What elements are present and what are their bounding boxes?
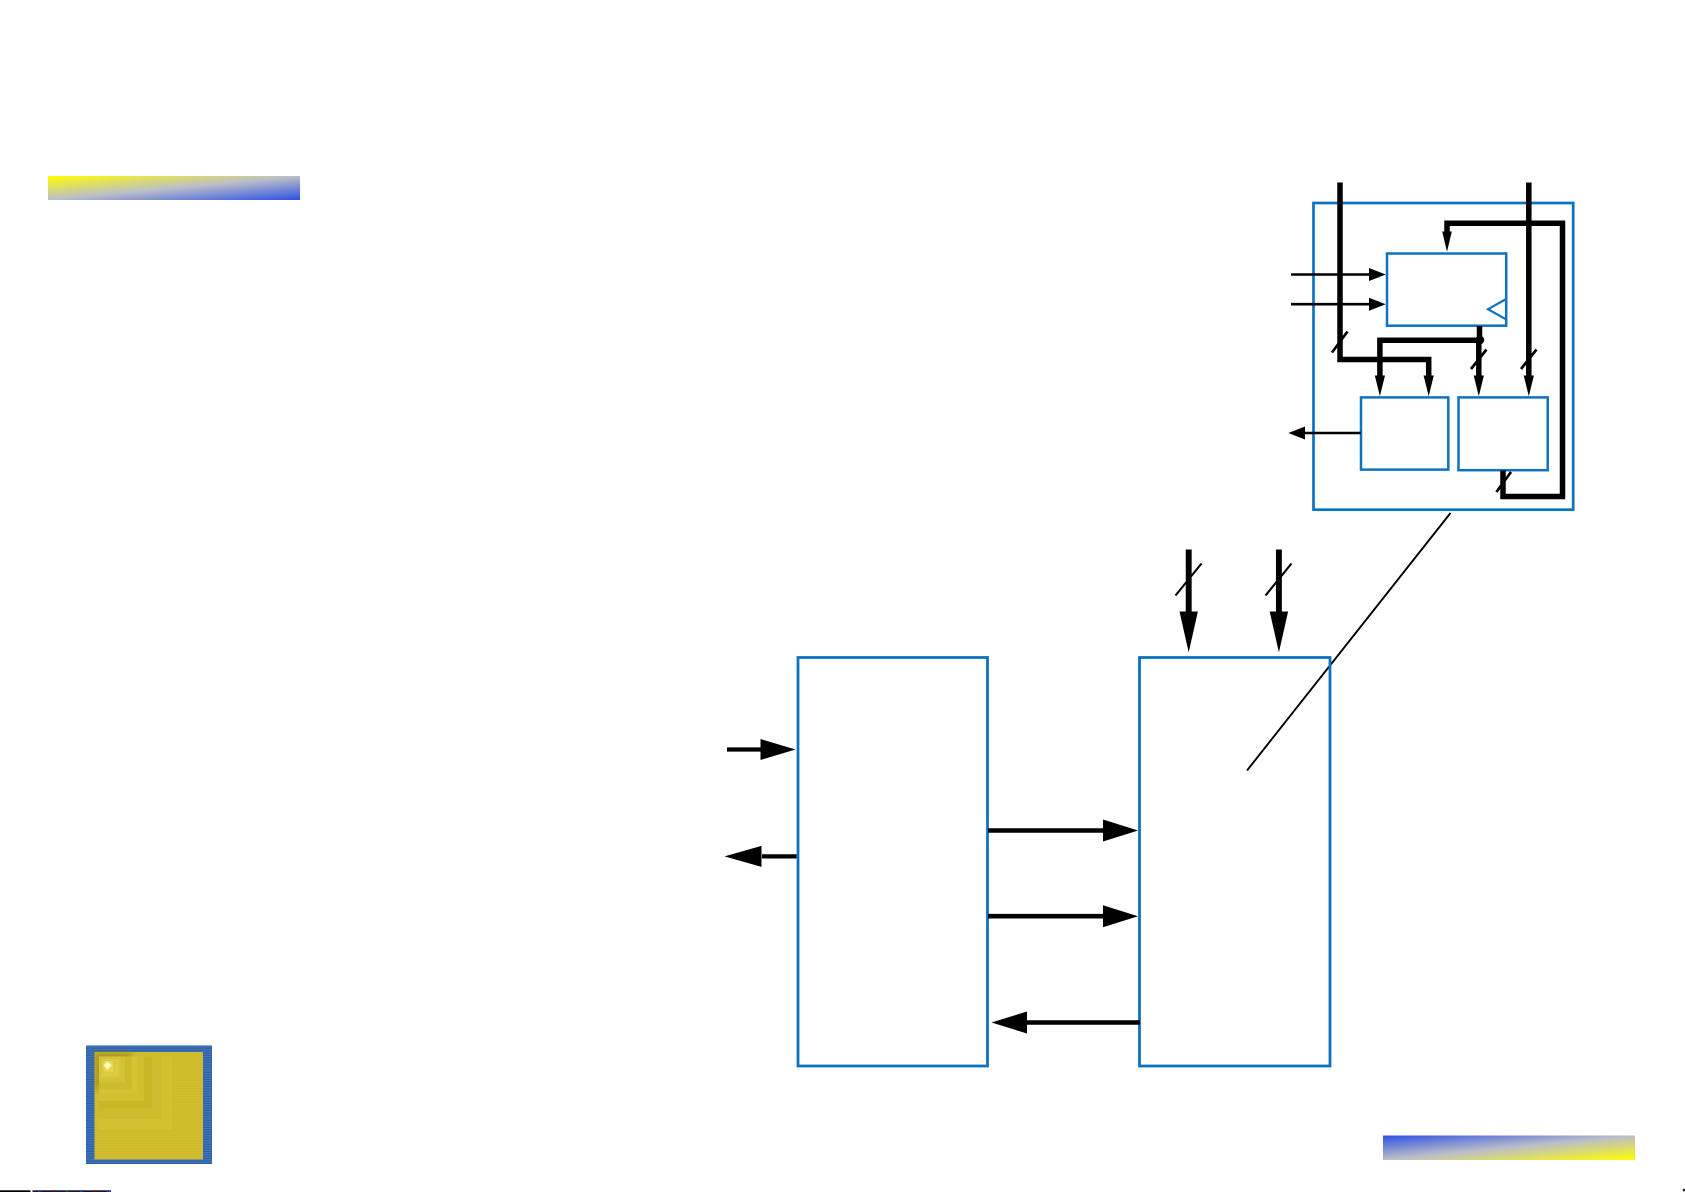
thin input arrow A1 into register — [1291, 268, 1386, 281]
clock wedge of REG1 — [1488, 299, 1506, 319]
footer gradient bar — [1383, 1136, 1635, 1161]
outer unit box U1 — [1314, 203, 1574, 510]
chip logo blue frame — [86, 1046, 212, 1165]
junction dot — [1475, 336, 1484, 345]
register REG1 — [1387, 254, 1506, 326]
bottom-left dark dashed strip — [33, 1190, 112, 1192]
read-data arrow memory to processor — [992, 1012, 1141, 1034]
slash on feedback wire — [1496, 472, 1511, 492]
bus wire: input A vertical into decoder — [1340, 183, 1434, 397]
bottom-left black strip — [0, 1190, 31, 1192]
wire: register output down into array — [1474, 340, 1484, 396]
processor block — [798, 658, 988, 1067]
array box M1 — [1459, 397, 1548, 470]
callout line from unit box to memory block — [1247, 513, 1451, 771]
memory block — [1140, 658, 1331, 1067]
feedback bus wire: array output back to register — [1442, 223, 1562, 496]
output arrow from processor — [725, 846, 797, 867]
decoder box X1 — [1361, 397, 1448, 469]
bus arrow D2 down into memory — [1270, 550, 1288, 653]
bus arrow D1 down into memory — [1180, 550, 1198, 653]
slash on register-array wire — [1471, 350, 1487, 370]
slash on input B wire — [1521, 350, 1537, 370]
slash on input A wire — [1332, 332, 1348, 353]
wire: register output to decoder — [1375, 326, 1480, 396]
thin output arrow from decoder — [1288, 427, 1361, 440]
slash on bus arrow D1 — [1176, 564, 1202, 596]
title gradient bar — [48, 176, 300, 200]
address arrow processor to memory — [988, 820, 1138, 842]
write-data arrow processor to memory — [988, 905, 1138, 927]
slash on bus arrow D2 — [1266, 564, 1292, 596]
bus wire: input B vertical into array — [1524, 183, 1534, 397]
bottom-right corner dot — [1683, 1189, 1685, 1191]
input arrow into processor — [727, 739, 796, 760]
thin input arrow A2 into register — [1291, 298, 1386, 311]
chip logo yellow die — [95, 1052, 204, 1160]
